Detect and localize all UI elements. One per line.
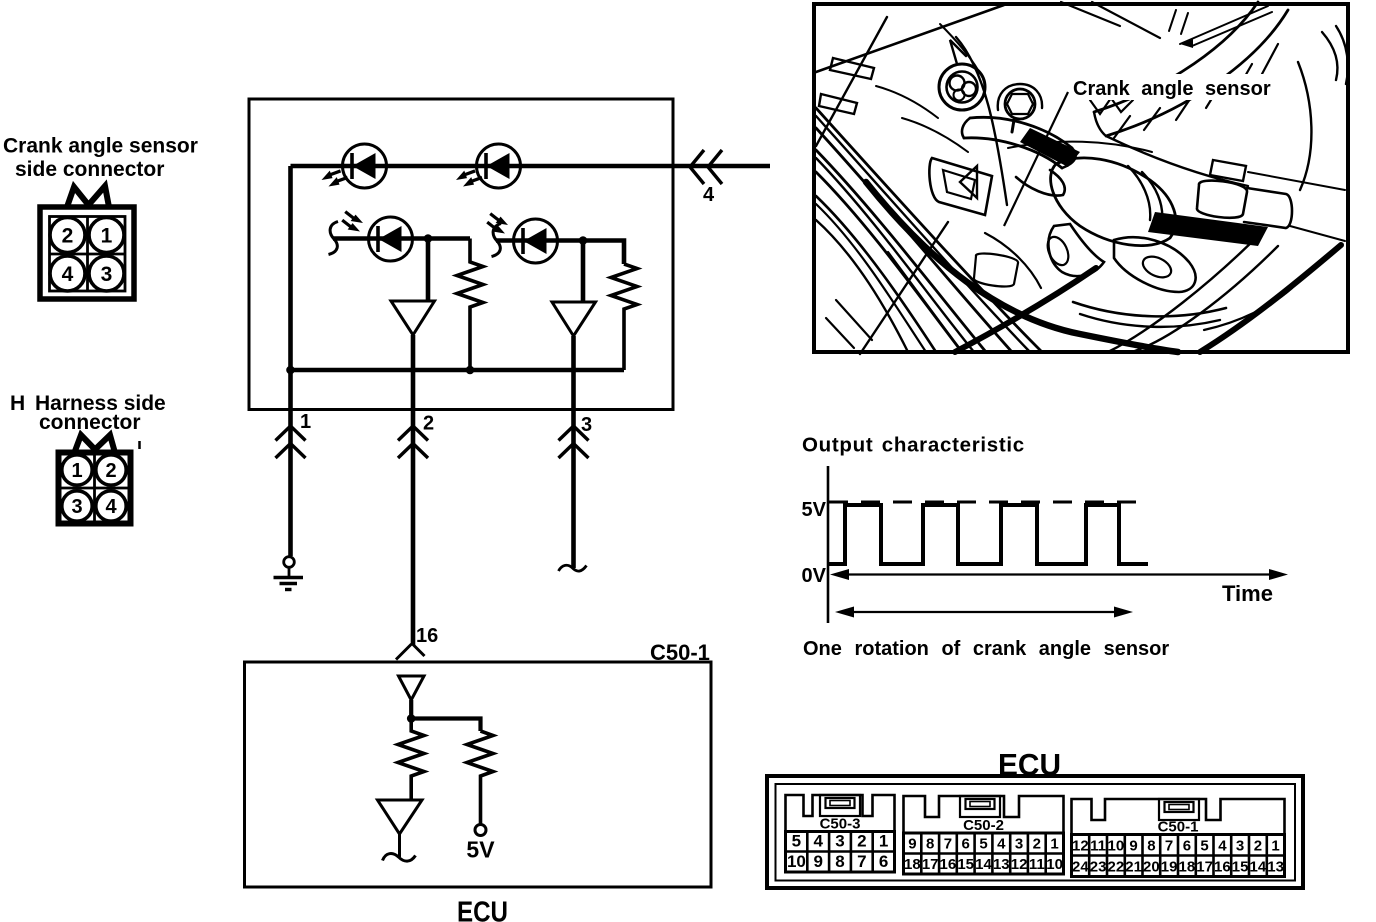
dipstick [1180,6,1268,44]
wire: left vertical [288,166,293,370]
connector block C50-2 pin grid [904,833,1064,874]
svg-text:6: 6 [962,836,970,853]
svg-text:One rotation of crank angle se: One rotation of crank angle sensor [803,638,1169,660]
sensor snout [1048,224,1104,276]
junction node A [424,234,433,243]
wire: pin 1 vertical [288,370,293,556]
svg-text:10: 10 [1046,856,1063,873]
resistor R1 [457,239,483,371]
connector C2 harness side connector body [59,453,131,524]
photodiode D3 reception arrows [343,208,364,227]
svg-text:1: 1 [101,225,113,248]
svg-text:7: 7 [944,836,952,853]
distributor boot [1114,237,1196,292]
svg-text:12: 12 [1011,856,1028,873]
svg-text:20: 20 [1143,859,1160,876]
svg-text:1: 1 [1271,838,1279,855]
sensor shadow wedge [1148,212,1268,246]
svg-text:9: 9 [813,852,822,871]
svg-text:5: 5 [979,836,987,853]
svg-text:1: 1 [1050,836,1058,853]
thick cable B from sensor snout [955,268,1096,352]
photodiode D4 reception arrows [488,210,509,229]
pin 4 [50,256,85,291]
svg-text:11: 11 [1090,838,1106,855]
wire U3 to node E [409,700,413,719]
svg-text:5: 5 [1200,838,1208,855]
svg-text:2: 2 [1033,836,1041,853]
svg-text:8: 8 [1147,838,1155,855]
svg-text:5V: 5V [802,499,827,521]
connector block C50-2 latch [960,796,1000,817]
svg-text:2: 2 [62,225,74,248]
svg-text:1: 1 [300,411,311,433]
svg-text:11: 11 [1029,856,1045,873]
pin 1 [89,218,124,253]
pale band bottom right [1108,232,1262,352]
svg-text:7: 7 [857,852,866,871]
sensor bracket band [970,117,1072,148]
arrow wedge [960,166,977,198]
svg-text:4: 4 [813,832,823,851]
svg-text:8: 8 [835,852,844,871]
big hose top right [1094,2,1258,112]
connector block C50-1 latch [1159,799,1199,820]
illustration frame [814,4,1348,352]
svg-text:Crank angle sensor: Crank angle sensor [1073,78,1271,100]
buffer U2 [552,302,596,336]
svg-text:2: 2 [105,460,116,482]
svg-text:4: 4 [105,496,117,518]
svg-text:2: 2 [1254,838,1262,855]
mount plate [929,158,992,215]
wire: top feed (pin 4 line) [291,164,771,169]
svg-text:ECU: ECU [457,897,508,922]
engine illustration of crank angle sensor location [814,2,1348,354]
photodiode D4 [514,219,558,263]
svg-text:13: 13 [993,856,1010,873]
hose lower continuation [1106,136,1248,186]
ground [274,557,304,590]
photodiode D4 input squiggle [492,224,502,257]
right edge arcs [1322,32,1337,80]
pin 3 [89,256,124,291]
pin 2 [50,218,85,253]
svg-text:Crank angle sensor: Crank angle sensor [3,135,198,158]
bracket hook [1016,170,1065,196]
svg-text:Time: Time [1222,581,1273,606]
svg-text:3: 3 [581,414,592,436]
sensor body [1051,158,1176,246]
svg-text:4: 4 [997,836,1006,853]
svg-text:6: 6 [879,852,888,871]
connector C1 sensor side connector body [40,207,134,299]
svg-text:10: 10 [787,852,806,871]
wire node A down to buffer U1 [426,239,431,302]
connector block C50-2 outline [904,796,1064,833]
connector block C50-1 outline [1072,799,1285,835]
buffer U1 [391,301,435,335]
svg-text:5: 5 [792,832,801,851]
connector block C50-1 pin grid [1072,835,1285,877]
svg-text:0V: 0V [802,565,827,587]
junction node B [286,366,295,375]
svg-text:16: 16 [416,625,438,647]
buffer U3 [399,676,425,700]
svg-text:18: 18 [904,856,921,873]
svg-text:4: 4 [1218,838,1227,855]
wire node D to resistor R2 [583,241,624,265]
svg-text:18: 18 [1179,859,1196,876]
svg-text:5V: 5V [466,837,495,863]
pin 1 [62,455,92,485]
label: Crank angle sensor side connector [3,135,198,182]
svg-text:3: 3 [1015,836,1023,853]
svg-text:7: 7 [1165,838,1173,855]
clip tabs on left [830,58,874,79]
junction node D [579,236,588,245]
svg-text:23: 23 [1090,859,1107,876]
buffer U4 [378,800,423,834]
crank angle sensor unit box [249,99,673,410]
svg-text:16: 16 [1214,859,1231,876]
5V terminal [475,825,486,836]
sensor bracket shadow [1020,128,1080,167]
svg-text:3: 3 [835,832,844,851]
svg-text:C50-3: C50-3 [820,816,861,833]
svg-text:22: 22 [1108,859,1125,876]
svg-text:connector: connector [39,411,141,434]
junction node C [466,366,475,375]
resistor R2 [611,264,637,370]
5V dashed reference line [829,501,1143,504]
photodiode D3 [369,217,413,261]
buffer U4 output break curl [383,834,416,861]
svg-text:3: 3 [71,496,82,518]
cable bundle left [816,108,1042,352]
label: H Harness side connector [10,392,166,434]
svg-text:3: 3 [1236,838,1244,855]
svg-text:15: 15 [957,856,974,873]
wire: pin 3 vertical [571,336,576,568]
connector latch (sensor side) [67,186,109,207]
one-rotation span arrow [835,607,1133,618]
thick cable bottom-right diagonal [1200,245,1341,352]
harness connector right [1210,160,1246,181]
resistor R3 [398,719,424,801]
svg-text:C50-1: C50-1 [650,640,710,665]
svg-text:1: 1 [71,460,82,482]
leader line to sensor [1004,92,1068,226]
LED D1 [343,144,387,188]
ECU connector outer shell [767,776,1303,888]
svg-text:H: H [10,392,25,415]
bolt B2 [1005,89,1035,119]
LED D2 [477,144,521,188]
connector block C50-3 latch [820,795,860,816]
resistor R4 [467,731,493,825]
pin 3 [62,491,92,521]
svg-text:8: 8 [926,836,934,853]
hose right descender [1298,62,1311,190]
hose clamp center [974,254,1018,287]
svg-text:17: 17 [922,856,939,873]
connector block C50-3 outline [786,795,895,832]
bracket spike above bolt [950,40,966,64]
svg-text:9: 9 [1129,838,1137,855]
svg-text:9: 9 [908,836,916,853]
LED D1 emission arrows [319,167,341,182]
svg-text:1: 1 [879,832,888,851]
connector chevrons on pin 4 wire [690,150,722,184]
ECU schematic box [245,662,712,887]
square wave [828,505,1148,564]
bolt B1 head [950,76,965,91]
svg-text:4: 4 [703,184,715,206]
svg-text:12: 12 [1072,838,1089,855]
waveform voltage axis [827,466,830,623]
hose spokes [1114,116,1130,138]
wire into photodiode D4 [496,238,583,243]
pipe curve center [985,233,1041,288]
crossing diagonal [860,222,948,354]
svg-text:3: 3 [101,263,113,286]
svg-text:C50-1: C50-1 [1158,819,1199,836]
wire node D down to buffer U2 [581,241,586,303]
label knockout [1064,74,1280,100]
wire into photodiode D3 [333,236,470,241]
harness connector latch [75,435,115,451]
svg-text:14: 14 [1250,859,1267,876]
connector chevrons pin 1 [276,426,306,458]
bottom bus wire [291,368,625,373]
pin 3 break curl [559,565,587,571]
tick mark [138,441,141,449]
svg-text:2: 2 [423,413,434,435]
roof diagonals top middle [1061,2,1120,26]
photodiode D3 input squiggle [329,222,339,255]
wire: pin 2 vertical [411,335,416,645]
bottom left short lines [836,300,872,340]
pin 2 [96,455,126,485]
svg-text:15: 15 [1232,859,1249,876]
bolt B1 washer [939,64,985,110]
svg-text:21: 21 [1125,859,1142,876]
svg-text:4: 4 [62,263,74,286]
time axis arrow [830,569,1288,580]
connector crow-foot into ECU [396,644,425,660]
svg-text:14: 14 [975,856,992,873]
LED D2 emission arrows [454,167,476,182]
pulley arcs bottom [1073,302,1226,316]
thick cable A [866,182,1178,352]
svg-text:side connector: side connector [15,158,164,181]
panel edge diagonals top-left [816,5,1004,72]
connector chevrons pin 2 [398,426,428,458]
svg-text:13: 13 [1267,859,1284,876]
junction node E [407,714,416,723]
engine contour behind sensor [1008,142,1152,152]
connector block C50-3 pin grid [786,832,895,873]
wire node E to resistor R4 [411,719,480,732]
svg-text:17: 17 [1196,859,1213,876]
svg-text:6: 6 [1183,838,1191,855]
svg-text:19: 19 [1161,859,1178,876]
V marks [1090,98,1133,114]
svg-text:C50-2: C50-2 [963,817,1004,834]
svg-text:10: 10 [1108,838,1125,855]
svg-text:Output characteristic: Output characteristic [802,434,1025,457]
pin 4 [96,491,126,521]
svg-text:24: 24 [1072,859,1089,876]
connector chevrons pin 3 [559,426,589,458]
svg-text:2: 2 [857,832,866,851]
svg-text:16: 16 [940,856,957,873]
